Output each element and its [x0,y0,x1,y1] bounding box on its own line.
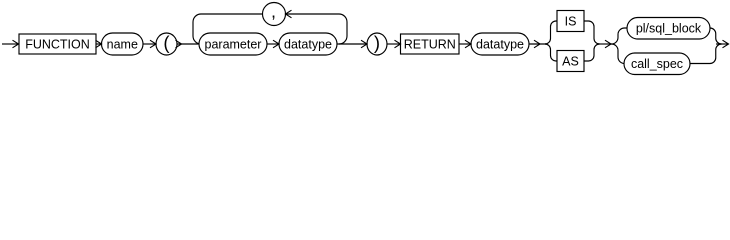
wire AS to merge [584,44,600,61]
svg-text:name: name [107,37,138,51]
svg-text:): ) [374,32,380,53]
svg-text:call_spec: call_spec [631,57,683,71]
wire name to ( [143,43,156,45]
keyword box AS [557,51,584,72]
svg-text:datatype: datatype [476,37,524,51]
circle ( [156,33,177,55]
arrowhead after ( [176,40,182,48]
svg-text:pl/sql_block: pl/sql_block [636,21,702,35]
wire repeat loop [193,14,347,44]
oval name [102,33,144,55]
arrowhead into ) [361,40,367,48]
svg-text:,: , [271,2,276,22]
oval parameter [199,33,267,55]
svg-text:datatype: datatype [284,37,332,51]
arrowhead into name [96,40,102,48]
oval datatype 2 [471,33,529,55]
circle comma [263,3,286,26]
wire IS to merge [584,21,600,44]
arrowhead loop comma (points left) [286,10,292,18]
arrowhead into datatype 2 [465,40,471,48]
arrowhead into FUNCTION [13,40,19,48]
svg-text:FUNCTION: FUNCTION [25,37,90,51]
wire RETURN to datatype [459,43,471,45]
arrowhead before block split [605,40,611,48]
wire split to pl/sql_block [612,28,628,44]
wire pl/sql_block to merge [710,28,722,44]
keyword box RETURN [401,34,460,54]
wire split to IS [545,21,557,44]
wire IS/AS merge to block split [598,43,612,45]
svg-text:parameter: parameter [205,37,262,51]
arrowhead into RETURN [395,40,401,48]
wire FUNCTION to name [96,43,101,45]
wire split to call_spec [612,44,625,64]
wire start arrow line [2,43,18,45]
svg-text:RETURN: RETURN [404,37,456,51]
svg-text:IS: IS [565,14,577,28]
svg-text:AS: AS [562,54,579,68]
oval datatype [279,33,337,55]
wire end arrow line [716,43,728,45]
oval call_spec [624,53,690,75]
keyword box IS [557,11,584,32]
wire ( to parameter [177,43,199,45]
keyword box FUNCTION [19,34,96,54]
wire split to AS [545,44,557,61]
wire datatype to IS/AS split [529,43,546,45]
oval pl/sql_block [627,18,710,40]
arrowhead before IS/AS split [534,40,540,48]
wire ) to RETURN [387,43,400,45]
arrowhead into ( [150,40,156,48]
arrowhead end [723,40,729,48]
wire datatype to ) [337,43,367,45]
wire call_spec to merge [690,44,722,64]
arrowhead into datatype [273,40,279,48]
svg-text:(: ( [163,32,170,53]
circle ) [367,33,387,55]
wire parameter to datatype [267,43,279,45]
